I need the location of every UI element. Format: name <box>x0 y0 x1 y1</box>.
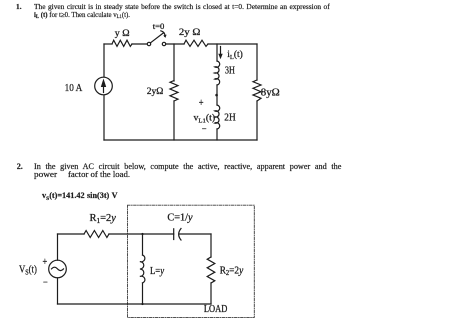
svg-text:C=1/y: C=1/y <box>167 213 193 224</box>
wire circuit2 bottom <box>58 303 212 305</box>
label t=0 <box>153 21 165 31</box>
svg-text:L=y: L=y <box>150 267 165 278</box>
wire inductor branch bottom <box>216 129 218 140</box>
wire circuit2 left edge <box>57 234 59 304</box>
label 3H <box>225 64 235 76</box>
problem 1 number <box>16 3 22 10</box>
wire R1 to capacitor <box>109 233 174 235</box>
problem 2 text line 1 <box>34 163 341 171</box>
voltage source VS <box>49 260 67 278</box>
wire right branch bottom circuit2 <box>210 283 212 304</box>
svg-text:+: + <box>43 257 48 268</box>
wire right edge top <box>256 44 258 80</box>
problem 2 number <box>17 163 23 171</box>
dashed LOAD box <box>128 205 255 317</box>
problem 1 text line 1 <box>34 3 330 10</box>
svg-text:vL1(t): vL1(t) <box>194 113 216 125</box>
resistor R2=2y <box>207 257 215 283</box>
svg-text:10 A: 10 A <box>65 82 83 94</box>
source equation <box>42 192 118 200</box>
inductor L=y <box>140 255 145 283</box>
svg-text:iL(t): iL(t) <box>227 49 243 61</box>
switch S1 (t=0) <box>147 31 166 46</box>
inductor L2 2H <box>215 105 220 129</box>
junction node L branch top <box>141 233 143 235</box>
wire switch to resistor 2y <box>166 43 184 45</box>
problem 2 text line 2b <box>68 171 126 179</box>
label minus vL1 <box>202 124 207 135</box>
label C=1/y <box>167 213 193 224</box>
wire inductor branch circuit2 <box>142 234 144 304</box>
svg-text:8yΩ: 8yΩ <box>261 88 280 99</box>
wire between inductors <box>216 85 218 105</box>
wire capacitor to corner <box>180 233 212 235</box>
label VS(t) <box>19 264 37 276</box>
wire top left circuit2 <box>58 233 85 235</box>
svg-text:R2=2y: R2=2y <box>220 265 244 277</box>
wire right edge bottom <box>256 101 258 140</box>
label plus vL1 <box>199 98 204 109</box>
label R1=2y <box>90 213 117 225</box>
problem 2 text line 2a <box>34 171 54 179</box>
resistor 8yOhm <box>253 80 261 101</box>
svg-text:2y Ω: 2y Ω <box>179 28 201 38</box>
label minus VS <box>43 278 48 289</box>
label 8yOhm <box>261 88 280 99</box>
svg-text:y Ω: y Ω <box>115 28 130 39</box>
wire top left segment <box>104 43 112 45</box>
wire inductor branch top <box>216 44 218 61</box>
svg-text:+: + <box>199 98 204 109</box>
svg-text:R1=2y: R1=2y <box>90 213 117 225</box>
wire top right segment <box>208 43 257 45</box>
label y Ohm <box>115 28 130 39</box>
wire middle branch 2y <box>173 44 175 140</box>
resistor R1=2y <box>84 231 109 238</box>
label plus VS <box>43 257 48 268</box>
svg-text:t=0: t=0 <box>153 21 165 31</box>
label 2yOhm <box>147 86 164 97</box>
resistor 2y Ohm top <box>184 40 208 46</box>
resistor 2yOhm middle branch <box>170 81 178 102</box>
problem 1 text line 2 <box>34 11 138 18</box>
wire right branch top circuit2 <box>210 234 212 257</box>
svg-text:2yΩ: 2yΩ <box>147 86 164 97</box>
wire circuit1 left edge <box>103 44 105 140</box>
wire resistor to switch <box>132 43 147 45</box>
current source I1 10A <box>95 77 113 95</box>
label R2=2y <box>220 265 244 277</box>
svg-text:3H: 3H <box>225 64 235 76</box>
svg-text:2H: 2H <box>224 112 236 124</box>
current arrow iL(t) <box>218 47 222 60</box>
svg-text:−: − <box>43 278 48 289</box>
label 2y Ohm <box>179 28 201 38</box>
label vL1(t) <box>194 113 216 125</box>
junction node between 3H and 2H <box>215 94 218 97</box>
capacitor C=1/y <box>174 229 181 241</box>
wire circuit1 bottom <box>104 139 257 141</box>
resistor R yOhm <box>112 40 132 46</box>
label 10 A <box>65 82 83 94</box>
label LOAD <box>204 303 228 314</box>
junction node L branch bottom <box>141 303 143 305</box>
inductor L1 3H <box>215 61 220 85</box>
label iL(t) <box>227 49 243 61</box>
svg-text:−: − <box>202 124 207 135</box>
label L=y <box>150 267 165 278</box>
label 2H <box>224 112 236 124</box>
svg-text:LOAD: LOAD <box>204 303 228 314</box>
svg-text:VS(t): VS(t) <box>19 264 37 276</box>
